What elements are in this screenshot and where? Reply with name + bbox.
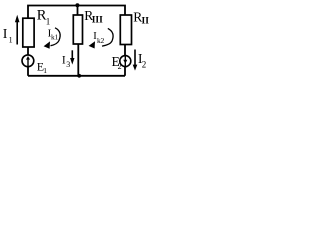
svg-text:k1: k1 xyxy=(51,33,58,42)
svg-text:3: 3 xyxy=(66,60,70,69)
svg-text:k2: k2 xyxy=(97,36,104,45)
svg-text:1: 1 xyxy=(9,35,13,44)
svg-text:I: I xyxy=(3,27,8,42)
svg-text:2: 2 xyxy=(118,62,122,71)
svg-text:1: 1 xyxy=(46,16,51,26)
svg-text:III: III xyxy=(92,16,103,26)
svg-text:1: 1 xyxy=(43,66,47,75)
svg-text:2: 2 xyxy=(142,59,147,69)
svg-text:I: I xyxy=(62,55,66,67)
svg-text:II: II xyxy=(142,17,150,27)
